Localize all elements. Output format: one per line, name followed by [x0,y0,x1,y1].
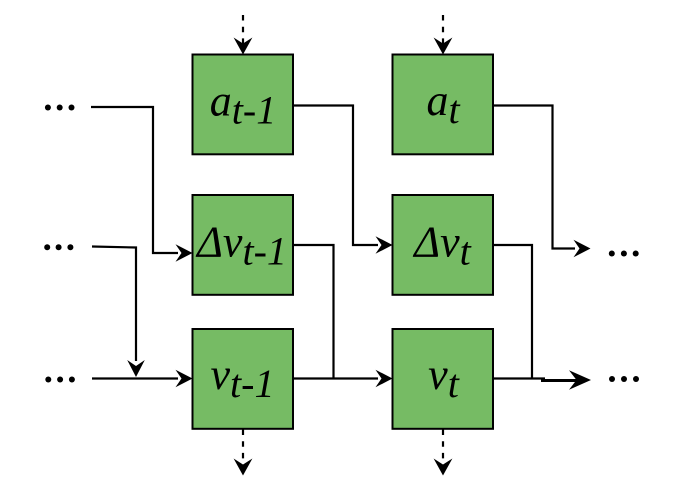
wire v_t-1 output into v_t with arrowhead [293,370,393,388]
dashed arrow out of bottom of v_t [434,430,453,476]
wire v_t output to right dots with thick arrowhead [493,370,591,389]
wire a_t output to right dots with arrowhead [493,106,591,258]
box v_t-1 [193,329,294,429]
wire a_t-1 output into Delta-v_t with arrowhead [293,106,393,254]
box a_t [393,55,494,155]
dashed arrow out of bottom of v_t-1 [234,430,253,476]
dots left row3 [45,377,75,383]
wire row2-left down to v-input line with down arrowhead [92,247,145,378]
box v_t [393,329,494,429]
box a_t-1 [193,55,294,155]
dashed arrow into top of a_t-1 [234,15,253,55]
dots left row1 [45,105,75,111]
wire Delta-v_t-1 output T-joining v line [293,245,334,379]
wire Delta-v_t output T-joining v_t output line [493,245,532,379]
box Delta-v_t [393,195,494,295]
dashed arrow into top of a_t [434,15,453,55]
box Delta-v_t-1 [193,195,294,295]
dots left row2 [44,244,73,250]
dots right row3 [609,376,639,382]
wire row1-left into Delta-v_t-1 with arrowhead [91,107,193,262]
dots right row2 [609,251,639,257]
wire row3-left into v_t-1 with arrowhead [92,370,193,388]
